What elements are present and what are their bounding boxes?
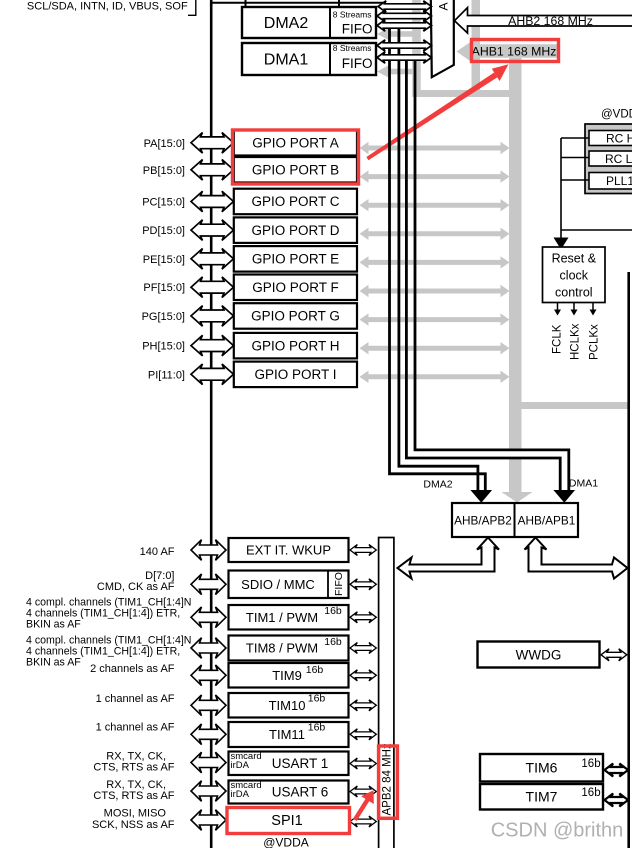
DMA1 block [242, 43, 376, 75]
GPIO PORT B [234, 157, 357, 183]
TIM11 box [229, 722, 349, 748]
GPIO PORT I [234, 362, 357, 388]
svg-text:SCL/SDA, INTN, ID, VBUS, SOF: SCL/SDA, INTN, ID, VBUS, SOF [27, 0, 188, 12]
svg-text:SCK, NSS as AF: SCK, NSS as AF [92, 819, 175, 831]
double arrow TIM10 to APB2 bus [350, 700, 376, 711]
svg-text:1 channel as AF: 1 channel as AF [96, 693, 175, 705]
net AHB1 gray bus: vertical strip center [472, 0, 481, 95]
gray arrow GPIO PORT A to bus [360, 142, 510, 154]
svg-text:PD[15:0]: PD[15:0] [142, 225, 185, 237]
double arrow PD to GPIO PORT D [191, 220, 234, 241]
red annotation arrow from SPI1 to APB2 84 MHz [353, 790, 374, 821]
AHB bus matrix (slanted block) [431, 0, 454, 77]
wire RC HS to clock control [561, 137, 589, 139]
svg-text:PI[11:0]: PI[11:0] [148, 369, 185, 381]
wire tube DMA2 (inner boundary) [399, 27, 478, 492]
svg-text:DMA1: DMA1 [264, 52, 309, 69]
svg-text:SDIO / MMC: SDIO / MMC [241, 577, 315, 592]
svg-text:Reset &: Reset & [552, 252, 597, 266]
svg-text:16b: 16b [581, 758, 600, 770]
gray arrow GPIO PORT F to bus [360, 285, 510, 297]
AHB2 168 MHz arrow into bus matrix [455, 8, 632, 33]
red highlight rect around AHB1 168 MHz [472, 40, 559, 62]
RC HS box [589, 131, 632, 146]
gray arrow GPIO PORT H to bus [360, 342, 510, 354]
double arrow DMA2 port2 to bus matrix [377, 20, 432, 31]
red highlight rect around SPI1 [227, 808, 350, 834]
svg-text:GPIO PORT E: GPIO PORT E [252, 252, 339, 267]
svg-text:RX, TX, CK,: RX, TX, CK, [106, 779, 166, 791]
gray arrow GPIO PORT I to bus [360, 371, 510, 383]
double arrow DMA2 port1 to bus matrix [377, 10, 432, 21]
svg-text:USART 6: USART 6 [272, 785, 329, 800]
APB2 bus strip [379, 538, 394, 848]
gray arrow GPIO PORT G to bus [360, 313, 510, 325]
gray bus arrowhead into AHB/APB bridges [502, 492, 533, 503]
GPIO PORT D [234, 217, 357, 243]
double arrow AF signals to SPI1 [191, 810, 226, 831]
svg-text:16b: 16b [308, 722, 326, 734]
svg-text:CMD, CK as AF: CMD, CK as AF [97, 581, 175, 593]
arrowhead into reset and clock control [554, 238, 569, 250]
double arrow AF signals to TIM10 [191, 695, 226, 716]
wire RC LS to clock control [561, 157, 589, 159]
svg-text:PF[15:0]: PF[15:0] [143, 282, 185, 294]
EXT IT. WKUP box [229, 538, 349, 562]
svg-text:GPIO PORT F: GPIO PORT F [252, 280, 339, 295]
svg-text:TIM9: TIM9 [272, 668, 302, 683]
svg-text:16b: 16b [306, 664, 324, 676]
svg-text:TIM8 / PWM: TIM8 / PWM [246, 641, 318, 656]
double arrow PE to GPIO PORT E [191, 249, 234, 270]
svg-text:BKIN as AF: BKIN as AF [26, 619, 81, 631]
svg-text:AHB1 168 MHz: AHB1 168 MHz [472, 44, 557, 58]
gray arrow GPIO PORT D to bus [360, 228, 510, 240]
double arrow TIM1 / PWM to APB2 bus [350, 612, 376, 623]
svg-text:FIFO: FIFO [342, 22, 373, 37]
svg-text:GPIO PORT H: GPIO PORT H [251, 338, 339, 353]
PCLKx output arrowhead [590, 310, 597, 316]
double arrow port0 to bus matrix [378, 1, 432, 12]
TIM10 box [229, 693, 349, 718]
wire tube DMA1 (inner boundary) [415, 59, 569, 492]
svg-text:GPIO PORT I: GPIO PORT I [254, 367, 336, 382]
svg-text:DMA2: DMA2 [264, 15, 309, 32]
double arrow DMA1 port1 to bus matrix [377, 40, 432, 51]
gray arrow GPIO PORT E to bus [360, 256, 510, 268]
svg-text:TIM6: TIM6 [526, 760, 558, 776]
svg-text:AHB2 168 MHz: AHB2 168 MHz [508, 14, 593, 28]
svg-text:USART 1: USART 1 [272, 756, 329, 771]
TIM1 / PWM box [229, 605, 349, 630]
wire vertical into reset and clock control [560, 138, 562, 239]
double arrow EXT IT. WKUP to APB2 bus [350, 545, 376, 556]
gray arrow GPIO PORT C to bus [360, 199, 510, 211]
double arrow PH to GPIO PORT H [191, 335, 234, 356]
svg-text:TIM1 / PWM: TIM1 / PWM [246, 610, 318, 625]
net AHB1 168 MHz labeled band with left arrowhead [457, 42, 559, 61]
svg-text:SPI1: SPI1 [271, 813, 302, 829]
svg-text:TIM7: TIM7 [526, 789, 558, 805]
HCLKx output arrowhead [571, 310, 578, 316]
red annotation arrow from GPIO A/B highlight to AHB1 highlight [366, 64, 508, 160]
svg-text:irDA: irDA [231, 760, 250, 771]
double arrow PA to GPIO PORT A [191, 133, 234, 154]
SDIO / MMC box [229, 571, 349, 599]
svg-text:16b: 16b [581, 787, 600, 799]
double arrow AF signals to SDIO / MMC [191, 574, 226, 595]
wire tube DMA2 from bus matrix to AHB/APB2 (outer boundary) [390, 27, 486, 492]
wire PLL1 to clock control [561, 179, 589, 181]
wire tube DMA1 white interior over gray bus [406, 448, 415, 457]
svg-text:HCLKx: HCLKx [570, 323, 582, 360]
double arrow PG to GPIO PORT G [191, 306, 234, 327]
double arrow PI to GPIO PORT I [191, 364, 234, 385]
GPIO PORT G [234, 303, 357, 329]
net AHB1 gray bus: narrow vertical strip left [412, 0, 421, 97]
double arrow TIM9 to APB2 bus [350, 670, 376, 681]
svg-text:FCLK: FCLK [552, 324, 564, 354]
svg-text:TIM10: TIM10 [269, 698, 306, 713]
wire tick on top box [245, 0, 247, 7]
double arrow SDIO / MMC to APB2 bus [350, 579, 376, 590]
svg-text:EXT IT. WKUP: EXT IT. WKUP [246, 543, 331, 558]
svg-text:16b: 16b [324, 636, 342, 648]
DMA2 block [242, 7, 376, 38]
svg-text:@VDDA: @VDDA [263, 836, 309, 848]
double arrow PC to GPIO PORT C [191, 191, 234, 212]
elbow arrow AHB/APB2 to APB2 bus [398, 538, 500, 579]
svg-text:GPIO PORT A: GPIO PORT A [252, 136, 339, 151]
SPI1 box (red highlighted) [227, 808, 350, 834]
TIM9 box [229, 663, 349, 688]
svg-text:CSDN @brithn: CSDN @brithn [491, 820, 624, 842]
GPIO PORT A [234, 130, 357, 156]
wire tick divider on top box [338, 0, 340, 7]
svg-text:GPIO PORT B: GPIO PORT B [252, 163, 339, 178]
svg-text:PLL1,: PLL1, [606, 174, 632, 188]
wire tube DMA1 (outer boundary) [406, 59, 560, 492]
gray arrowhead into DMA2 FIFO [377, 28, 389, 40]
GPIO PORT F [234, 275, 357, 301]
svg-text:GPIO PORT D: GPIO PORT D [251, 223, 339, 238]
double arrow AF signals to TIM11 [191, 724, 226, 745]
svg-text:DMA2: DMA2 [423, 478, 452, 490]
svg-text:FIFO: FIFO [333, 572, 345, 596]
svg-text:FIFO: FIFO [342, 56, 373, 71]
double arrow PB to GPIO PORT B [191, 160, 234, 181]
oscillator block (gray, clipped right) [585, 124, 632, 194]
double arrow AF signals to TIM8 / PWM [191, 638, 226, 659]
double arrow TIM8 / PWM to APB2 bus [350, 643, 376, 654]
TIM8 / PWM box [229, 636, 349, 661]
svg-text:PA[15:0]: PA[15:0] [144, 138, 185, 150]
USART 6 box [229, 780, 349, 804]
wire to right edge [561, 229, 632, 231]
svg-text:clock: clock [560, 269, 589, 283]
gray branch to right edge box [521, 402, 629, 409]
double arrow TIM6 to APB1 [605, 764, 629, 777]
svg-text:PH[15:0]: PH[15:0] [142, 341, 185, 353]
GPIO PORT H [234, 333, 357, 359]
svg-text:A: A [437, 2, 451, 10]
USART 1 box [229, 751, 349, 775]
svg-text:1 channel as AF: 1 channel as AF [96, 721, 175, 733]
net AHB1 main vertical gray bus [509, 58, 522, 492]
arrowhead DMA1 into AHB/APB1 [555, 491, 575, 503]
double arrow DMA1 port2 to bus matrix [377, 52, 432, 63]
double arrow PF to GPIO PORT F [191, 277, 234, 298]
svg-text:8 Streams: 8 Streams [333, 43, 372, 53]
svg-text:RC LS: RC LS [605, 152, 632, 166]
FCLK output arrow [558, 303, 594, 311]
svg-text:2 channels as AF: 2 channels as AF [90, 663, 175, 675]
double arrow AF signals to USART 1 [191, 752, 226, 773]
gray arrowhead into DMA1 FIFO [377, 66, 389, 78]
svg-text:WWDG: WWDG [516, 647, 562, 662]
svg-text:16b: 16b [324, 605, 342, 617]
svg-text:AHB/APB2: AHB/APB2 [454, 513, 512, 527]
Reset & clock control box [543, 247, 606, 303]
svg-text:GPIO PORT G: GPIO PORT G [251, 309, 340, 324]
svg-text:CTS, RTS as AF: CTS, RTS as AF [93, 790, 174, 802]
svg-text:RC HS: RC HS [606, 132, 632, 146]
bracket after SOF label [195, 0, 197, 16]
svg-text:DMA1: DMA1 [569, 478, 598, 490]
TIM6 box [480, 754, 603, 782]
svg-text:CTS, RTS as AF: CTS, RTS as AF [93, 762, 174, 774]
svg-text:RX, TX, CK,: RX, TX, CK, [106, 750, 166, 762]
red highlight rect around GPIO PORT A/B [233, 130, 359, 184]
net AHB1 gray bus: horizontal band [417, 90, 522, 97]
svg-text:PCLKx: PCLKx [589, 324, 601, 360]
svg-text:PC[15:0]: PC[15:0] [142, 197, 185, 209]
TIM7 box [480, 784, 603, 810]
double arrow AF signals to TIM9 [191, 665, 226, 686]
double arrow AF signals to TIM1 / PWM [191, 607, 226, 628]
svg-text:control: control [555, 286, 593, 300]
gray arrow GPIO PORT B to bus [360, 170, 510, 182]
right edge box line (clipped) [627, 272, 630, 848]
svg-text:PB[15:0]: PB[15:0] [143, 165, 185, 177]
double arrow TIM11 to APB2 bus [350, 729, 376, 740]
red highlight rect around APB2 84 MHz [379, 746, 398, 818]
svg-text:8 Streams: 8 Streams [333, 10, 372, 20]
double arrow TIM7 to APB1 [605, 794, 629, 807]
svg-text:16b: 16b [308, 693, 326, 705]
PLL1 box [589, 173, 632, 190]
elbow arrow AHB/APB1 to APB1 bus [525, 538, 628, 579]
double arrow SPI1 to APB2 bus [350, 816, 376, 827]
svg-text:PE[15:0]: PE[15:0] [143, 254, 185, 266]
svg-text:irDA: irDA [231, 789, 250, 800]
svg-text:BKIN as AF: BKIN as AF [26, 657, 81, 669]
svg-text:APB2 84 MHz: APB2 84 MHz [381, 743, 393, 815]
double arrow AF signals to USART 6 [191, 781, 226, 802]
WWDG box [478, 642, 600, 668]
svg-text:AHB/APB1: AHB/APB1 [518, 513, 576, 527]
wire: bottom edge of box above DMA2 [211, 2, 384, 4]
svg-text:TIM11: TIM11 [269, 727, 305, 742]
svg-text:MOSI, MISO: MOSI, MISO [104, 808, 167, 820]
AHB/APB2 bridge [452, 503, 578, 537]
arrowhead DMA2 into AHB/APB2 [472, 491, 492, 503]
double arrow USART 6 to APB2 bus [350, 786, 376, 797]
svg-text:D[7:0]: D[7:0] [145, 570, 174, 582]
main peripheral bus vertical wire [210, 0, 213, 848]
double arrow WWDG to APB1 [601, 649, 627, 661]
double arrow USART 1 to APB2 bus [350, 758, 376, 769]
svg-text:140 AF: 140 AF [140, 546, 175, 558]
svg-text:@VDDA: @VDDA [601, 109, 632, 121]
RC LS box [589, 151, 632, 166]
double arrow AF signals to EXT IT. WKUP [191, 540, 226, 561]
GPIO PORT E [234, 246, 357, 272]
svg-text:GPIO PORT C: GPIO PORT C [251, 194, 339, 209]
svg-text:PG[15:0]: PG[15:0] [142, 311, 185, 323]
GPIO PORT C [234, 189, 357, 215]
